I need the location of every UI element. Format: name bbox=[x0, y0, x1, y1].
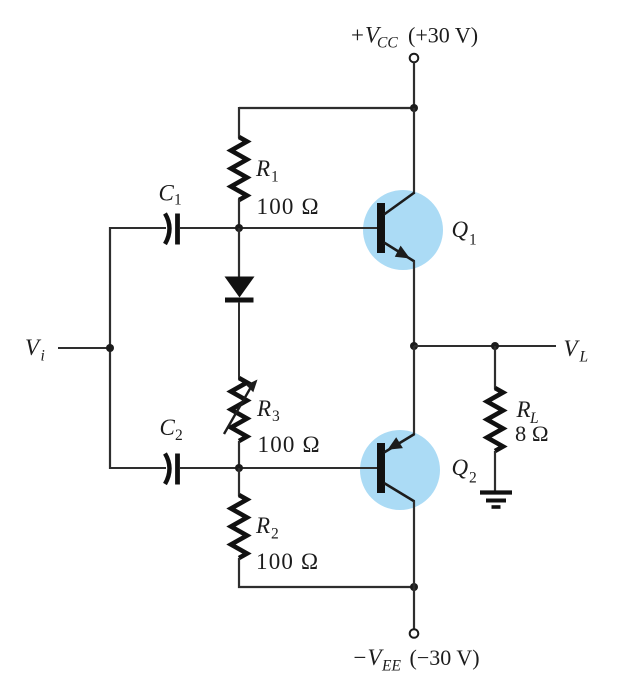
node Vi junction bbox=[106, 344, 114, 352]
label RL bbox=[516, 397, 539, 427]
node output junction bbox=[410, 342, 418, 350]
wire R1 bottom lead bbox=[238, 199, 240, 229]
wire VCC terminal to top junction bbox=[413, 63, 415, 109]
svg-text:3: 3 bbox=[272, 408, 280, 425]
svg-text:2: 2 bbox=[469, 469, 477, 486]
svg-text:C: C bbox=[160, 415, 176, 440]
wire Q1 collector vertical bbox=[413, 108, 415, 194]
svg-text:100 Ω: 100 Ω bbox=[258, 432, 321, 457]
label +VCC (+30 V) bbox=[350, 22, 479, 51]
wire C1 left lead bbox=[110, 227, 166, 229]
wire top horizontal rail bbox=[239, 107, 414, 109]
wire R2 top lead bbox=[238, 468, 240, 496]
node base-1 junction bbox=[235, 224, 243, 232]
resistor RL bbox=[487, 388, 503, 451]
label -VEE (-30 V) bbox=[352, 645, 480, 674]
wire R1 top lead bbox=[238, 107, 240, 138]
svg-text:1: 1 bbox=[469, 232, 477, 249]
label VL bbox=[564, 336, 589, 366]
wire RL bottom lead bbox=[494, 451, 496, 492]
svg-text:1: 1 bbox=[271, 169, 279, 186]
svg-text:R: R bbox=[255, 513, 270, 538]
wire output node to Q2 emitter bbox=[413, 346, 415, 435]
wire C2 left lead bbox=[110, 467, 166, 469]
ground bbox=[480, 493, 512, 508]
diode D1 bbox=[225, 277, 255, 303]
svg-text:8 Ω: 8 Ω bbox=[515, 421, 549, 446]
terminal -VEE bbox=[410, 629, 419, 638]
svg-text:CC: CC bbox=[377, 35, 398, 52]
node top junction bbox=[410, 104, 418, 112]
wire Vi input bbox=[58, 347, 110, 349]
svg-text:i: i bbox=[41, 348, 45, 365]
transistor Q2 body (blue disc) bbox=[360, 430, 440, 510]
label R3 bbox=[256, 396, 280, 425]
svg-text:C: C bbox=[159, 180, 175, 205]
label R1 bbox=[255, 156, 279, 186]
svg-text:Q: Q bbox=[452, 455, 469, 480]
svg-text:R: R bbox=[256, 396, 271, 421]
wire Q2 collector vertical bbox=[413, 501, 415, 587]
capacitor C2 bbox=[165, 454, 178, 485]
svg-text:100 Ω: 100 Ω bbox=[257, 194, 320, 219]
left input rail bbox=[109, 227, 111, 469]
node RL junction bbox=[491, 342, 499, 350]
svg-text:(+30 V): (+30 V) bbox=[408, 22, 478, 47]
wire diode anode lead bbox=[238, 228, 240, 278]
transistor Q1 (npn) bbox=[377, 193, 415, 262]
svg-text:1: 1 bbox=[174, 192, 182, 209]
label C1 bbox=[159, 180, 182, 208]
wire RL top lead bbox=[494, 346, 496, 389]
svg-text:R: R bbox=[516, 397, 531, 422]
wire Q1 emitter to output node bbox=[413, 261, 415, 346]
label Q2 bbox=[452, 455, 477, 487]
terminal +VCC bbox=[410, 54, 419, 63]
transistor Q2 (pnp) bbox=[377, 434, 415, 502]
wire C1 to Q1 base bbox=[180, 227, 377, 229]
svg-text:2: 2 bbox=[175, 427, 183, 444]
resistor R3 (variable) bbox=[224, 378, 258, 441]
wire C2 to Q2 base bbox=[180, 467, 377, 469]
wire output to VL bbox=[414, 345, 556, 347]
svg-text:EE: EE bbox=[381, 657, 401, 674]
wire diode cathode to R3 bbox=[238, 302, 240, 379]
label Vi bbox=[25, 335, 45, 365]
svg-text:2: 2 bbox=[271, 526, 279, 543]
wire to -VEE terminal bbox=[413, 587, 415, 629]
label C2 bbox=[160, 415, 183, 444]
capacitor C1 bbox=[165, 214, 178, 245]
label R2 bbox=[255, 513, 279, 543]
svg-text:100 Ω: 100 Ω bbox=[256, 549, 319, 574]
resistor R2 bbox=[231, 495, 247, 558]
svg-text:(−30 V): (−30 V) bbox=[410, 645, 480, 670]
svg-text:L: L bbox=[579, 349, 589, 366]
label Q1 bbox=[452, 217, 477, 249]
wire R2 to bottom rail bbox=[239, 558, 414, 587]
wire R3 bottom lead bbox=[238, 441, 240, 468]
svg-text:−V: −V bbox=[352, 645, 385, 670]
node base-2 junction bbox=[235, 464, 243, 472]
transistor Q1 body (blue disc) bbox=[363, 190, 443, 270]
svg-text:R: R bbox=[255, 156, 270, 181]
node bottom junction bbox=[410, 583, 418, 591]
svg-text:Q: Q bbox=[452, 217, 469, 242]
resistor R1 bbox=[231, 137, 247, 200]
